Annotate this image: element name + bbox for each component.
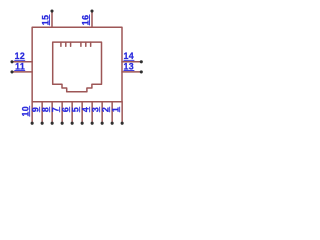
svg-text:8: 8: [41, 107, 51, 112]
svg-text:10: 10: [21, 106, 31, 117]
pin 4: [81, 102, 94, 125]
pin number 15: [41, 14, 51, 25]
pin 11 endpoint dot: [10, 70, 13, 73]
pin number 4: [81, 107, 91, 113]
pin 7: [51, 102, 64, 125]
pin 3 lead wire: [101, 102, 103, 124]
pin 16 endpoint dot: [90, 10, 93, 13]
pin 14: [122, 51, 143, 63]
pin 15 endpoint dot: [50, 10, 53, 13]
svg-text:14: 14: [124, 51, 135, 61]
svg-text:15: 15: [41, 15, 51, 26]
pin 14 lead wire: [122, 61, 141, 63]
pin 9 endpoint dot: [41, 122, 44, 125]
pin number 10: [21, 106, 31, 117]
pin 9 lead wire: [41, 102, 43, 124]
pin number 13: [124, 61, 135, 71]
pin 15 lead wire: [51, 11, 53, 27]
pin 9: [31, 102, 44, 125]
pin 8 lead wire: [51, 102, 53, 124]
RJ45 contact 1: [60, 42, 62, 46]
pin 15: [41, 10, 54, 28]
pin number 2: [101, 107, 111, 113]
pin 1: [111, 102, 124, 125]
svg-text:2: 2: [101, 107, 111, 112]
svg-text:9: 9: [31, 107, 41, 112]
pin 8: [41, 102, 54, 125]
pin 16 lead wire: [91, 11, 93, 27]
pin 10: [21, 102, 34, 125]
pin 10 lead wire: [31, 102, 33, 124]
pin 3: [91, 102, 104, 125]
pin number 16: [81, 14, 91, 25]
connector J1 body: [32, 27, 122, 101]
pin 12 endpoint dot: [10, 60, 13, 63]
svg-text:1: 1: [111, 107, 121, 112]
svg-text:11: 11: [15, 61, 25, 71]
pin 2: [101, 102, 114, 125]
pin 6 endpoint dot: [71, 122, 74, 125]
pin number 11: [14, 61, 25, 71]
pin 13 lead wire: [122, 71, 141, 73]
pin 13 endpoint dot: [140, 70, 143, 73]
pin 4 lead wire: [91, 102, 93, 124]
svg-text:13: 13: [124, 61, 135, 71]
pin 10 endpoint dot: [31, 122, 34, 125]
pin 14 endpoint dot: [140, 60, 143, 63]
pin number 7: [51, 107, 61, 113]
pin number 14: [124, 51, 135, 61]
svg-text:5: 5: [71, 107, 81, 112]
svg-text:12: 12: [15, 51, 26, 61]
pin 2 endpoint dot: [111, 122, 114, 125]
pin 1 lead wire: [121, 102, 123, 124]
pin 16: [81, 10, 94, 28]
pin 6 lead wire: [71, 102, 73, 124]
pin 7 lead wire: [61, 102, 63, 124]
pin 11: [10, 61, 32, 73]
pin 7 endpoint dot: [61, 122, 64, 125]
pin 5: [71, 102, 84, 125]
pin number 5: [71, 107, 81, 113]
svg-text:3: 3: [91, 107, 101, 112]
pin number 6: [61, 107, 71, 113]
pin number 12: [14, 51, 25, 61]
pin 12: [10, 51, 32, 63]
svg-text:6: 6: [61, 107, 71, 112]
pin 8 endpoint dot: [51, 122, 54, 125]
RJ45 contact 3: [70, 42, 72, 46]
RJ45 contact 4: [80, 42, 82, 46]
RJ45 contact 2: [65, 42, 67, 46]
svg-text:4: 4: [81, 107, 91, 112]
pin 11 lead wire: [12, 71, 32, 73]
pin number 8: [41, 107, 51, 113]
pin number 9: [31, 107, 41, 113]
pin 2 lead wire: [111, 102, 113, 124]
pin 1 endpoint dot: [121, 122, 124, 125]
pin 12 lead wire: [12, 61, 32, 63]
pin 5 endpoint dot: [81, 122, 84, 125]
svg-text:16: 16: [81, 15, 91, 26]
svg-text:7: 7: [51, 107, 61, 112]
RJ45 contact 6: [90, 42, 92, 46]
pin number 3: [91, 107, 101, 113]
RJ45 contact 5: [85, 42, 87, 46]
RJ45 jack outline: [53, 42, 102, 92]
pin 5 lead wire: [81, 102, 83, 124]
pin number 1: [111, 107, 121, 113]
pin 13: [122, 61, 143, 73]
pin 6: [61, 102, 74, 125]
pin 3 endpoint dot: [101, 122, 104, 125]
pin 4 endpoint dot: [91, 122, 94, 125]
